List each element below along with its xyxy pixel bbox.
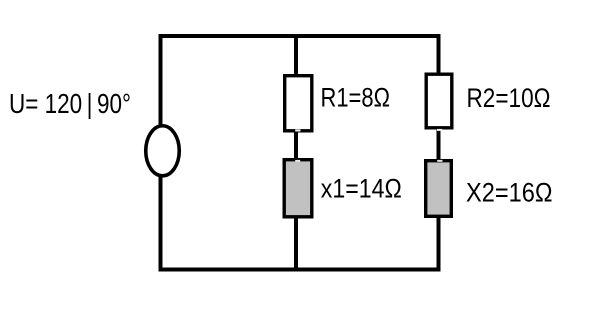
reactance X2 — [426, 161, 452, 217]
voltage source U (ac source ellipse) — [146, 126, 180, 176]
svg-text:R2=10Ω: R2=10Ω — [467, 83, 551, 113]
svg-text:X2=16Ω: X2=16Ω — [466, 177, 553, 207]
wire: bottom horizontal bus — [159, 268, 441, 272]
wire end notch on R1 bottom border — [295, 129, 300, 131]
resistor R1 — [285, 76, 312, 131]
wire: branch 1 vertical (through R1 and x1) — [294, 36, 298, 270]
wire: branch 2 vertical (through R2 and X2) — [437, 36, 441, 270]
resistor R2 — [426, 74, 452, 128]
wire end notch on R2 bottom border — [437, 129, 442, 131]
wire: left vertical upper segment — [159, 34, 163, 126]
wire: top horizontal bus — [159, 34, 441, 38]
svg-text:U= 120 | 90°: U= 120 | 90° — [9, 88, 131, 119]
reactance x1 — [284, 160, 312, 217]
wire: left vertical lower segment — [159, 176, 163, 272]
wire end notch on x1 top border — [295, 160, 300, 162]
svg-text:R1=8Ω: R1=8Ω — [321, 82, 391, 112]
svg-text:x1=14Ω: x1=14Ω — [321, 173, 402, 203]
wire end notch on X2 top border — [437, 160, 442, 162]
